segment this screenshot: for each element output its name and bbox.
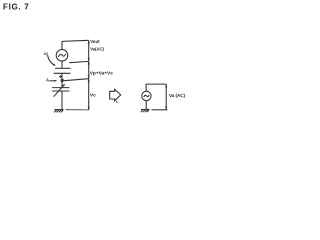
svg-text:FIG. 7: FIG. 7 [3, 2, 29, 11]
wire ground to dimension line (right circuit) [152, 109, 168, 111]
wire node A to dimension line [64, 79, 89, 81]
AC source V2 (right circuit) [142, 91, 151, 100]
wire source bottom to capacitor [61, 61, 63, 68]
arrowhead down at ground level [88, 107, 90, 110]
arrowhead up (right) [165, 84, 167, 87]
block arrow (implies) [110, 89, 121, 100]
arrowhead down to source-bottom level [88, 58, 90, 61]
arrowhead down (right) [165, 107, 167, 110]
node A junction dot [61, 79, 64, 82]
wire capacitor to node A [61, 73, 63, 87]
svg-text:Va(AC): Va(AC) [90, 47, 104, 52]
capacitor C1 (fixed) [55, 67, 70, 69]
ground (left circuit) [54, 109, 63, 111]
wire top horizontal (right circuit) [146, 84, 166, 91]
leader arrow from 22 to capacitor [48, 55, 54, 65]
dimension line Va (right circuit) [165, 84, 167, 110]
wire variable capacitor to ground [61, 91, 63, 110]
variable capacitor C2 [52, 87, 69, 89]
svg-text:Vout: Vout [90, 39, 100, 44]
svg-text:Vc: Vc [90, 93, 96, 99]
arrowhead up at Vout level [88, 40, 90, 43]
svg-text:Va (AC): Va (AC) [169, 93, 185, 98]
wire top horizontal (Vout node) [62, 40, 89, 49]
arrowhead up from node A level [88, 79, 90, 82]
AC source V1 (left circuit) [56, 50, 68, 62]
arrowhead down to node A level [88, 75, 90, 78]
ground (right circuit) [141, 108, 149, 110]
wire source to ground (right circuit) [145, 100, 147, 109]
leader arrow from A to node [49, 80, 55, 82]
wire ground to dimension line [66, 109, 89, 111]
block arrow tail stroke [116, 101, 118, 103]
plus polarity mark [59, 75, 62, 78]
dimension line (voltage levels) [88, 40, 90, 110]
svg-text:A: A [46, 78, 50, 83]
wire level line (source bottom reference) [69, 61, 89, 62]
arrowhead up from source-bottom level [88, 61, 90, 64]
svg-text:Vp+Va+Vc: Vp+Va+Vc [90, 71, 114, 77]
